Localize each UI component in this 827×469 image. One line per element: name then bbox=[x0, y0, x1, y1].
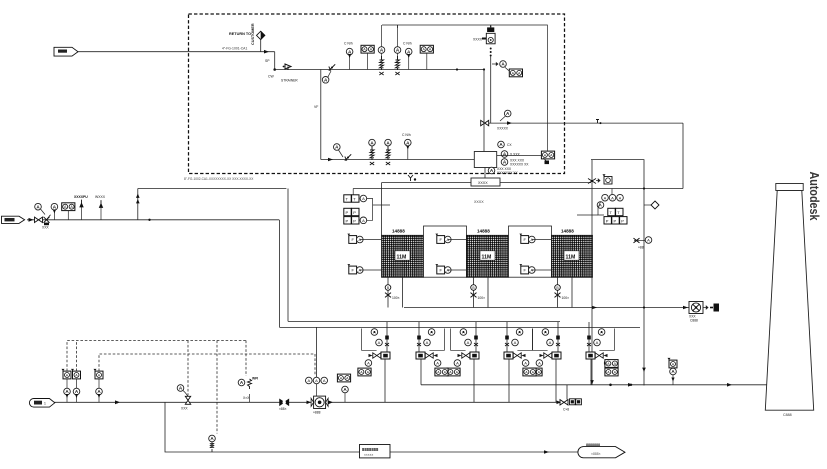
pilot control valve 2 bbox=[385, 139, 392, 146]
right burner instrument cluster bbox=[577, 189, 627, 225]
wire box drop to arch bbox=[484, 168, 486, 179]
burner box 3 hatched bbox=[552, 235, 593, 277]
standalone indicator stack right bbox=[668, 358, 678, 368]
indicator box PI/PR bbox=[420, 45, 433, 53]
svg-text:C N/h: C N/h bbox=[402, 133, 411, 137]
svg-text:×888×: ×888× bbox=[591, 452, 601, 456]
svg-text:8888888: 8888888 bbox=[586, 443, 600, 447]
svg-text:XXXX: XXXX bbox=[473, 38, 483, 42]
burner2 igniter pair bottom bbox=[435, 264, 451, 274]
wire header B to burners bbox=[280, 326, 641, 328]
ball valve on main line bbox=[280, 399, 289, 405]
burner1 downcomer b bbox=[402, 277, 404, 307]
wire flue fan suction line bbox=[404, 307, 689, 309]
indicator box FI/FQ bbox=[361, 45, 374, 53]
svg-text:14888: 14888 bbox=[477, 229, 490, 234]
heater right wall bbox=[591, 160, 593, 236]
svg-text:100×: 100× bbox=[392, 296, 400, 300]
off-page flag bottom right bbox=[578, 443, 625, 458]
wire air line elbow down bbox=[279, 220, 281, 328]
instrument PT with label bbox=[405, 48, 412, 55]
svg-text:11M: 11M bbox=[397, 254, 407, 260]
svg-text:WXXX: WXXX bbox=[95, 195, 106, 199]
main fuel line bottom bbox=[53, 401, 561, 403]
svg-text:×888: ×888 bbox=[313, 411, 321, 415]
svg-text:XXX: XXX bbox=[181, 407, 188, 411]
arch box H-1001 bbox=[471, 178, 500, 186]
svg-text:4"-FG-1001-CA1: 4"-FG-1001-CA1 bbox=[222, 47, 247, 51]
damper actuator box bbox=[603, 174, 613, 184]
svg-text:XXX: XXX bbox=[42, 226, 49, 230]
burner box 1 hatched bbox=[382, 235, 424, 277]
main shutoff valve train vertical bbox=[483, 70, 485, 152]
analyzer box AI bbox=[541, 151, 554, 159]
svg-text:8"-FG-1002-CA1-XXXXXXXX-XX XX: 8"-FG-1002-CA1-XXXXXXXX-XX XXX-XXXX-XX bbox=[184, 177, 254, 181]
svg-text:A: A bbox=[367, 361, 370, 366]
instrument boxes left low 1 bbox=[62, 369, 72, 379]
off-page connector flag FUEL GAS SUPPLY bbox=[54, 47, 78, 56]
arrow on duct drop bbox=[642, 368, 646, 372]
wire LP line to flag bbox=[390, 451, 578, 453]
wire fuel gas feed line bbox=[78, 51, 275, 53]
instrument PG below damper bbox=[322, 77, 329, 84]
valve damper on pilot header bbox=[345, 154, 351, 160]
control valve PCV-2 with coil bbox=[394, 47, 401, 54]
flue duct top bbox=[591, 160, 644, 386]
burner train 6 (right type) bbox=[586, 322, 618, 385]
svg-text:C888: C888 bbox=[783, 413, 792, 417]
wire vent drop right side bbox=[682, 123, 684, 188]
svg-text:11M: 11M bbox=[566, 254, 576, 260]
svg-text:C×8: C×8 bbox=[563, 408, 569, 412]
wire signal overhead run bbox=[382, 25, 547, 151]
motor circle on dashed signal bbox=[209, 435, 216, 442]
burner1 orifice bbox=[385, 285, 391, 291]
wire cluster riser to manifold bbox=[566, 385, 568, 400]
control valve main with actuator bbox=[486, 25, 495, 43]
silencer at fan discharge bbox=[703, 306, 708, 309]
svg-text:A: A bbox=[362, 196, 365, 201]
wire drop to LP line bbox=[165, 402, 360, 452]
burner1 igniter pair top bbox=[347, 234, 363, 244]
instrument boxes left low 2 bbox=[71, 369, 81, 379]
svg-text:14888: 14888 bbox=[392, 229, 405, 234]
svg-text:1: 1 bbox=[44, 402, 46, 406]
burner train 2 (right type) bbox=[416, 322, 448, 385]
flue gas fan bbox=[689, 302, 703, 314]
stack chimney bbox=[765, 184, 813, 418]
burner train 1 (left type) bbox=[358, 322, 390, 402]
svg-text:P: P bbox=[346, 210, 349, 215]
burner train 3 (left type) bbox=[447, 322, 479, 402]
svg-text:A: A bbox=[436, 361, 439, 366]
node junction dots on header bbox=[456, 68, 458, 70]
instrument FT with flow label bbox=[346, 48, 353, 55]
svg-text:P: P bbox=[614, 218, 617, 223]
svg-text:VF: VF bbox=[314, 105, 318, 109]
instrument PG air bbox=[35, 203, 42, 210]
svg-text:A: A bbox=[426, 340, 429, 345]
node pilot tap on arch bbox=[408, 175, 416, 181]
svg-text:×××××: ××××× bbox=[364, 453, 373, 457]
mixing box bbox=[474, 152, 496, 168]
node junction on air line bbox=[148, 219, 150, 221]
metering box bbox=[360, 445, 391, 458]
svg-text:P: P bbox=[346, 218, 349, 223]
svg-text:Autodesk: Autodesk bbox=[807, 172, 821, 221]
heater right wall lower bbox=[591, 277, 593, 385]
svg-text:CUSTOMER: CUSTOMER bbox=[251, 23, 255, 45]
svg-text:×88: ×88 bbox=[638, 246, 644, 250]
pilot control valve 1 bbox=[369, 139, 376, 146]
instrument BE-1 bbox=[501, 151, 508, 158]
burner3 igniter pair top bbox=[519, 234, 535, 244]
svg-text:11M: 11M bbox=[482, 254, 492, 260]
burner3 igniter pair bottom bbox=[519, 264, 535, 274]
wire header A to burners bbox=[288, 320, 560, 322]
wire air line bbox=[27, 219, 279, 221]
svg-text:P: P bbox=[353, 218, 356, 223]
burner3 downcomer b bbox=[571, 277, 573, 307]
svg-text:X XXX: X XXX bbox=[510, 153, 521, 157]
svg-text:P: P bbox=[621, 218, 624, 223]
burner1 igniter pair bottom bbox=[347, 264, 363, 274]
svg-text:XXXXPU: XXXXPU bbox=[74, 195, 88, 199]
svg-text:P: P bbox=[606, 218, 609, 223]
svg-text:A: A bbox=[378, 340, 381, 345]
svg-text:100×: 100× bbox=[478, 296, 486, 300]
wire diamond drop bbox=[260, 40, 262, 52]
svg-text:A: A bbox=[611, 195, 614, 200]
interlock diamond bbox=[257, 31, 265, 39]
svg-text:XXXXXX XX: XXXXXX XX bbox=[510, 163, 529, 167]
gauge pair near manifold start bbox=[337, 374, 350, 382]
train6 extra indicator box bbox=[605, 360, 618, 368]
burner train 4 (right type) bbox=[504, 322, 536, 385]
svg-text:XXXX: XXXX bbox=[478, 181, 488, 185]
svg-text:A: A bbox=[647, 238, 650, 243]
instrument AT at box corner bbox=[498, 141, 505, 148]
instrument arch PT bbox=[488, 167, 495, 174]
svg-text:14888: 14888 bbox=[561, 229, 574, 234]
wire vent line to right bbox=[489, 122, 683, 124]
strainer bbox=[283, 64, 291, 70]
indicator box PSLL bbox=[509, 69, 522, 77]
instrument PSL bbox=[500, 61, 507, 68]
burner2 orifice bbox=[471, 285, 477, 291]
burner2 downcomer b bbox=[487, 277, 489, 307]
burner3 orifice bbox=[555, 285, 561, 291]
burner3 downcomer a bbox=[557, 277, 559, 307]
damper at heater outlet bbox=[588, 179, 596, 184]
svg-text:A: A bbox=[619, 195, 622, 200]
wire fuel drop from header bbox=[287, 189, 289, 322]
valve air control bbox=[44, 215, 51, 225]
burner box 2 hatched bbox=[467, 235, 509, 277]
svg-text:A: A bbox=[323, 378, 326, 383]
svg-text:C N/h: C N/h bbox=[344, 42, 353, 46]
gauge trio above blower bbox=[306, 377, 313, 384]
skid outlet valve cluster bbox=[560, 400, 568, 405]
instrument TG air bbox=[51, 203, 58, 210]
instrument PT pilot with label bbox=[405, 139, 412, 146]
valve vent bowtie bbox=[481, 120, 489, 125]
wire feed elbow down bbox=[274, 52, 276, 70]
svg-text:X×X: X×X bbox=[243, 396, 250, 400]
valve air bowtie bbox=[35, 217, 43, 222]
wire long combustion header bbox=[138, 188, 287, 190]
plenum box 1-2 bbox=[424, 226, 467, 277]
svg-text:8888888: 8888888 bbox=[362, 447, 379, 452]
svg-text:XXXXXXX XX: XXXXXXX XX bbox=[497, 171, 519, 175]
valve damper on header bbox=[329, 64, 335, 70]
wire solenoid signal dotted bbox=[490, 48, 492, 57]
instrument BE-2 bbox=[501, 159, 508, 166]
instrument boxes left low 3 bbox=[94, 369, 104, 379]
battery limit dashed box bbox=[189, 14, 565, 174]
svg-text:×88×: ×88× bbox=[279, 407, 287, 411]
svg-text:C N/h: C N/h bbox=[403, 42, 412, 46]
wire VF bypass vertical bbox=[320, 70, 322, 160]
svg-text:STRAINER: STRAINER bbox=[281, 79, 298, 83]
off-page flag bottom left bbox=[29, 398, 54, 407]
wire box to analyzer bbox=[497, 155, 541, 157]
burner2 downcomer a bbox=[473, 277, 475, 307]
wire main header inside box bbox=[275, 69, 484, 71]
plenum box 2-3 bbox=[509, 226, 552, 277]
wire riser to gauges trio bbox=[316, 327, 318, 377]
heater left wall bbox=[381, 183, 383, 236]
burner train 5 (left type) bbox=[529, 322, 561, 402]
svg-text:CX: CX bbox=[507, 143, 512, 147]
svg-text:A: A bbox=[315, 378, 318, 383]
svg-text:WPI: WPI bbox=[252, 377, 258, 381]
instrument PG on pilot header bbox=[334, 144, 341, 151]
control valve PCV-1 with coil bbox=[378, 47, 385, 54]
wire bottom pilot header inside box bbox=[321, 159, 475, 161]
wire air riser to long header bbox=[137, 189, 139, 220]
left burner instrument cluster bbox=[344, 189, 390, 225]
svg-text:C888: C888 bbox=[690, 319, 698, 323]
svg-text:RETURN TO: RETURN TO bbox=[229, 32, 251, 36]
node arrow on feed line bbox=[264, 50, 269, 54]
damper diamond on duct bbox=[644, 204, 651, 206]
instrument PSV tag bbox=[504, 110, 511, 117]
off-page connector flag combustion air bbox=[2, 216, 25, 223]
signal dashed run B bbox=[99, 354, 315, 371]
duct instrument tap bbox=[634, 240, 648, 242]
svg-text:A: A bbox=[307, 378, 310, 383]
indicator box air FI bbox=[62, 203, 75, 211]
node vent tick bbox=[596, 120, 599, 124]
svg-text:A: A bbox=[362, 218, 365, 223]
signal dashed run A bbox=[67, 341, 246, 372]
svg-text:SP: SP bbox=[265, 59, 270, 63]
svg-text:P: P bbox=[353, 210, 356, 215]
svg-text:XXXX: XXXX bbox=[474, 200, 484, 204]
svg-text:100×: 100× bbox=[562, 296, 570, 300]
relief valve mid line bbox=[177, 385, 184, 392]
fuel gas blower bbox=[311, 396, 328, 408]
burner1 downcomer a bbox=[387, 277, 389, 307]
svg-text:XXXXX: XXXXX bbox=[497, 127, 509, 131]
local gauge cluster bbox=[238, 379, 245, 386]
wire train4 drop to main line bbox=[508, 385, 510, 403]
svg-text:A: A bbox=[604, 195, 607, 200]
wire main valve drop bbox=[490, 57, 492, 124]
fuel manifold and flue line to stack bbox=[421, 384, 767, 386]
burner2 igniter pair top bbox=[435, 234, 451, 244]
heater top line bbox=[382, 182, 592, 184]
svg-text:CW: CW bbox=[268, 75, 274, 79]
